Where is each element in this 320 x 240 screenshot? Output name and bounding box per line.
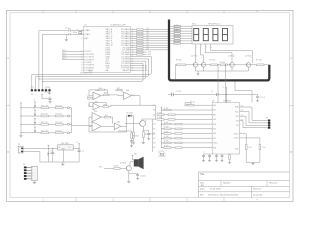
- svg-text:IN6: IN6: [213, 133, 216, 135]
- svg-text:IN4: IN4: [153, 124, 156, 126]
- svg-text:X1: X1: [77, 30, 79, 32]
- svg-text:IN5: IN5: [213, 129, 216, 131]
- svg-text:P1.0/T2: P1.0/T2: [84, 51, 92, 53]
- svg-text:R6 10K: R6 10K: [220, 62, 227, 64]
- svg-text:aD9: aD9: [146, 49, 149, 51]
- svg-text:Sheet of: Sheet of: [253, 188, 261, 191]
- svg-text:+5: +5: [77, 142, 79, 144]
- svg-text:aD6: aD6: [146, 42, 149, 44]
- svg-text:OSC0: OSC0: [234, 138, 239, 140]
- svg-text:C11 104: C11 104: [140, 176, 146, 178]
- svg-text:3: 3: [32, 173, 33, 175]
- svg-text:IN0: IN0: [213, 105, 216, 107]
- svg-text:BT0 10K: BT0 10K: [56, 106, 63, 108]
- svg-text:Drawn By:: Drawn By:: [253, 193, 263, 196]
- svg-text:aD7: aD7: [146, 44, 149, 46]
- svg-text:aD1: aD1: [146, 30, 149, 32]
- svg-text:Number: Number: [223, 181, 231, 184]
- svg-text:VR1 7805: VR1 7805: [61, 143, 69, 145]
- svg-text:aD5: aD5: [146, 40, 149, 42]
- svg-text:R 220: R 220: [175, 32, 179, 34]
- svg-text:A0: A0: [236, 120, 238, 123]
- svg-text:C12 104: C12 104: [176, 91, 182, 93]
- svg-text:IN7: IN7: [153, 138, 156, 140]
- svg-text:R 220: R 220: [175, 37, 179, 39]
- svg-text:P1.1/T2EX: P1.1/T2EX: [84, 54, 94, 56]
- svg-text:C10 104: C10 104: [260, 97, 266, 99]
- svg-text:R23: R23: [104, 105, 107, 107]
- svg-text:P1.5/MOSI: P1.5/MOSI: [84, 65, 94, 67]
- svg-text:IC AT89S52-24PI: IC AT89S52-24PI: [110, 24, 126, 27]
- svg-text:GND: GND: [88, 71, 93, 73]
- svg-text:IN8: IN8: [153, 143, 156, 145]
- svg-text:R12 4.7K: R12 4.7K: [41, 122, 49, 124]
- svg-text:IN3: IN3: [153, 119, 156, 121]
- svg-text:aD2: aD2: [146, 33, 149, 35]
- svg-text:IN1: IN1: [153, 110, 156, 112]
- svg-text:7SEG-MPX4-CC: 7SEG-MPX4-CC: [208, 24, 221, 26]
- svg-text:19: 19: [81, 38, 83, 40]
- svg-text:A1: A1: [236, 124, 238, 127]
- svg-text:+C5: +C5: [81, 151, 84, 153]
- svg-text:C 30p: C 30p: [262, 147, 266, 149]
- svg-text:Revision: Revision: [269, 182, 278, 184]
- svg-text:BELL: BELL: [99, 167, 103, 169]
- svg-text:IN4: IN4: [213, 124, 216, 126]
- svg-text:BT3 10K: BT3 10K: [56, 131, 63, 133]
- svg-text:2: 2: [32, 170, 33, 172]
- svg-text:TX0: TX0: [241, 106, 244, 108]
- svg-text:+5: +5: [33, 125, 35, 127]
- svg-text:19: 19: [81, 67, 83, 69]
- svg-text:IN0: IN0: [213, 147, 216, 149]
- svg-text:P1.4/SS: P1.4/SS: [84, 62, 92, 64]
- svg-text:IN2: IN2: [153, 114, 156, 116]
- svg-text:Date:: Date:: [200, 188, 205, 191]
- svg-text:HG1: HG1: [192, 24, 196, 26]
- svg-text:Q3 9012: Q3 9012: [228, 56, 235, 58]
- svg-text:Y1 32768: Y1 32768: [158, 151, 164, 153]
- svg-text:P3: P3: [23, 164, 25, 166]
- svg-text:R 10K: R 10K: [248, 147, 252, 149]
- svg-text:aD8: aD8: [146, 46, 149, 48]
- svg-text:R13 4.7K: R13 4.7K: [41, 131, 49, 133]
- svg-text:Q6 9013: Q6 9013: [120, 163, 126, 165]
- svg-text:+5: +5: [33, 100, 35, 102]
- svg-text:+5: +5: [223, 87, 225, 89]
- svg-text:R11 4.7K: R11 4.7K: [41, 114, 49, 116]
- svg-text:aD0: aD0: [146, 28, 149, 30]
- svg-text:+C4: +C4: [50, 151, 53, 153]
- svg-text:R 220: R 220: [175, 27, 179, 29]
- svg-text:C2 30p: C2 30p: [72, 32, 77, 34]
- svg-text:TX1: TX1: [241, 110, 244, 112]
- svg-text:R5 10K: R5 10K: [210, 60, 217, 62]
- svg-text:R24: R24: [105, 115, 108, 117]
- svg-text:KEY2: KEY2: [62, 56, 66, 58]
- svg-text:19: 19: [81, 65, 83, 67]
- svg-text:4: 4: [32, 176, 33, 178]
- svg-text:KEY1: KEY1: [62, 53, 66, 55]
- svg-text:C7: C7: [203, 152, 205, 154]
- svg-text:SCL: SCL: [235, 111, 239, 113]
- svg-text:R20: R20: [99, 88, 102, 90]
- svg-text:aD4: aD4: [146, 37, 149, 39]
- svg-text:R 220: R 220: [175, 30, 179, 32]
- svg-text:P1.2 KEY2: P1.2 KEY2: [84, 57, 95, 59]
- svg-text:IN2: IN2: [213, 114, 216, 116]
- svg-text:D:\Proteus\.. Board RealTimeK: D:\Proteus\.. Board RealTimeKlo: [208, 193, 239, 196]
- svg-text:LS1: LS1: [134, 153, 137, 155]
- svg-text:TX3: TX3: [241, 119, 244, 121]
- svg-text:1: 1: [32, 167, 33, 169]
- svg-text:IN7: IN7: [213, 138, 216, 140]
- svg-text:R 220: R 220: [175, 42, 179, 44]
- svg-text:5: 5: [32, 179, 33, 181]
- svg-text:File:: File:: [200, 194, 204, 196]
- svg-text:X2: X2: [18, 144, 20, 146]
- svg-text:IN1: IN1: [213, 110, 216, 112]
- svg-text:R19: R19: [87, 96, 90, 98]
- svg-text:U3B: U3B: [126, 90, 129, 92]
- svg-text:PCF8583: PCF8583: [223, 101, 231, 103]
- svg-text:+5: +5: [33, 116, 35, 118]
- svg-text:OSC1: OSC1: [234, 133, 239, 135]
- svg-text:C1 30p: C1 30p: [65, 28, 70, 30]
- svg-text:BT1 10K: BT1 10K: [56, 114, 63, 116]
- svg-text:Title: Title: [200, 173, 205, 176]
- svg-text:TX2: TX2: [241, 115, 244, 117]
- svg-text:19: 19: [81, 70, 83, 72]
- svg-text:C8 104: C8 104: [190, 101, 195, 103]
- svg-text:21.01.2008: 21.01.2008: [210, 189, 221, 191]
- svg-text:U2: U2: [212, 101, 214, 103]
- svg-text:IN9: IN9: [153, 147, 156, 149]
- svg-text:P2: P2: [266, 117, 268, 119]
- svg-text:MOSI MISO SCK: MOSI MISO SCK: [80, 73, 93, 75]
- svg-text:ISP: ISP: [31, 94, 34, 96]
- svg-text:R7 10K: R7 10K: [256, 60, 263, 62]
- svg-text:IN5: IN5: [153, 128, 156, 130]
- svg-text:R22: R22: [117, 88, 120, 90]
- svg-text:JP1: JP1: [31, 87, 34, 89]
- svg-text:Q1 9012: Q1 9012: [191, 56, 198, 58]
- svg-text:R10 4.7K: R10 4.7K: [41, 106, 49, 108]
- svg-text:BT2 10K: BT2 10K: [56, 122, 63, 124]
- svg-text:XTAL1: XTAL1: [84, 29, 91, 32]
- svg-text:R9 10K: R9 10K: [176, 60, 183, 62]
- svg-text:IN3: IN3: [213, 119, 216, 121]
- svg-text:Q4 9012: Q4 9012: [245, 56, 252, 58]
- svg-text:IN0: IN0: [153, 105, 156, 107]
- svg-text:R25 8K2: R25 8K2: [133, 136, 139, 138]
- svg-text:P1.3 KEY3: P1.3 KEY3: [84, 59, 95, 61]
- svg-text:aD3: aD3: [146, 35, 149, 37]
- svg-text:KEY3: KEY3: [62, 58, 66, 60]
- svg-text:+5: +5: [33, 108, 35, 110]
- svg-text:D5 4148: D5 4148: [127, 113, 133, 115]
- svg-text:XTAL2: XTAL2: [84, 33, 91, 36]
- svg-text:R 220: R 220: [175, 40, 179, 42]
- svg-text:KEY0: KEY0: [62, 50, 66, 52]
- svg-text:C3 104: C3 104: [44, 92, 50, 94]
- svg-text:R21: R21: [104, 93, 107, 95]
- svg-text:Q5: Q5: [145, 121, 147, 123]
- svg-text:OSCI: OSCI: [213, 143, 218, 145]
- svg-text:R 220: R 220: [175, 35, 179, 37]
- svg-text:C9: C9: [211, 91, 213, 93]
- svg-text:IN6: IN6: [153, 133, 156, 135]
- svg-text:EA/VPP: EA/VPP: [123, 69, 131, 72]
- svg-text:R 220: R 220: [175, 25, 179, 27]
- svg-text:19: 19: [81, 62, 83, 64]
